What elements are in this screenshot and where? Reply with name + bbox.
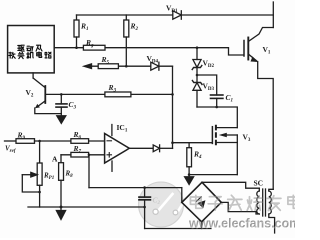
node junction R8 ground	[60, 206, 63, 209]
svg-text:www.elecfans.com: www.elecfans.com	[189, 218, 295, 232]
node junction R3 line	[171, 93, 174, 96]
zener VD2	[192, 48, 202, 83]
transistor V3 MOSFET	[212, 126, 237, 175]
node junction feedback	[88, 154, 91, 157]
svg-text:V1: V1	[263, 45, 271, 56]
svg-text:C3: C3	[69, 100, 77, 111]
transistor V2	[33, 73, 61, 114]
svg-text:R6: R6	[73, 130, 82, 141]
wire zener bottom to V3 drain	[197, 107, 237, 128]
wire V3 gate line	[173, 142, 213, 144]
wire drive line from box to V1 gate	[54, 48, 243, 55]
diode VD4	[151, 62, 159, 70]
diode VD5 output	[153, 145, 172, 152]
resistor R6	[71, 139, 89, 144]
node junction RP1 bottom	[38, 191, 41, 194]
wire VD4 output vertical	[172, 66, 174, 148]
svg-text:R7: R7	[73, 144, 82, 155]
svg-text:VD4: VD4	[147, 54, 159, 65]
wire bridge left jog	[181, 188, 183, 203]
wire feedback vertical	[88, 155, 90, 188]
svg-text:V2: V2	[26, 88, 34, 99]
capacitor C2	[139, 188, 150, 229]
svg-text:R2: R2	[130, 22, 139, 33]
wire bottom rail	[145, 228, 211, 230]
resistor R2	[124, 15, 129, 66]
wire bridge right to SC	[221, 202, 259, 214]
potentiometer RP1	[22, 141, 42, 207]
ground below C3	[57, 114, 66, 124]
svg-text:Vref: Vref	[5, 145, 17, 155]
svg-text:VD2: VD2	[203, 59, 215, 70]
svg-text:RP1: RP1	[43, 172, 54, 182]
svg-text:A: A	[52, 155, 58, 164]
svg-text:R8: R8	[65, 170, 74, 180]
resistor R9	[16, 139, 35, 144]
wire V3 source to R4	[189, 174, 237, 176]
node junction R2/R5	[125, 65, 128, 68]
svg-text:R3: R3	[108, 83, 117, 94]
watermark url	[188, 217, 301, 232]
resistor R5	[98, 64, 118, 69]
node junction ground rail C2	[143, 206, 146, 209]
wire bridge top to SC	[202, 182, 259, 188]
zener VD3	[192, 81, 202, 108]
wire R6 to IC1 minus	[89, 140, 105, 142]
transformer SC	[257, 188, 275, 233]
diode inside bridge	[197, 197, 205, 208]
svg-text:SC: SC	[254, 179, 264, 188]
resistor Rg	[83, 45, 105, 50]
node junction R1/drive	[75, 46, 78, 49]
transistor V1 IGBT	[244, 2, 273, 189]
node junction C1 top	[196, 74, 199, 77]
resistor R8	[59, 155, 64, 207]
wire R5 line with left arrow	[84, 64, 173, 69]
op-amp IC1	[105, 125, 130, 172]
wire node A line	[61, 154, 105, 156]
watermark white emboss overlay	[189, 195, 301, 231]
resistor R4	[187, 143, 192, 175]
node junction zener top	[196, 46, 199, 49]
resistor R1	[74, 15, 79, 48]
wire top rail	[77, 14, 274, 16]
ground below rail	[56, 207, 65, 220]
svg-text:IC1: IC1	[117, 123, 128, 134]
wire ground rail	[28, 206, 145, 208]
svg-text:R9: R9	[17, 131, 26, 142]
wire R9 to R6	[35, 140, 71, 142]
watermark logo disc	[138, 182, 185, 228]
svg-text:VD3: VD3	[203, 82, 215, 93]
wire IC1 output	[129, 147, 153, 149]
node junction R4 bottom	[188, 173, 191, 176]
svg-text:R4: R4	[193, 150, 202, 161]
svg-text:VD1: VD1	[166, 4, 178, 15]
node junction C3 top	[60, 93, 63, 96]
svg-text:R5: R5	[101, 55, 110, 65]
node junction C1 bottom	[215, 106, 218, 109]
node junction gate line	[171, 141, 174, 144]
ground below R4	[185, 175, 194, 185]
svg-text:R1: R1	[80, 22, 89, 33]
svg-text:C1: C1	[226, 93, 234, 104]
resistor R3	[105, 92, 131, 97]
bridge rectifier	[182, 182, 222, 222]
capacitor C1	[197, 75, 223, 107]
wire bridge bottom lead	[201, 222, 203, 229]
resistor R7	[71, 152, 89, 157]
watermark CJK text	[190, 195, 301, 212]
wire bridge sense rail	[89, 187, 182, 189]
node junction RP1 top	[38, 140, 41, 143]
svg-text:Rg: Rg	[85, 38, 94, 49]
wire V2 base line	[45, 93, 172, 95]
driver box 驱动及软关机电路	[8, 26, 55, 73]
capacitor C3	[56, 94, 67, 113]
wire Vref input	[5, 140, 17, 142]
node junction C2 top	[143, 186, 146, 189]
svg-text:V3: V3	[243, 133, 251, 144]
diode VD1	[173, 11, 182, 19]
label driver box text	[9, 45, 51, 58]
